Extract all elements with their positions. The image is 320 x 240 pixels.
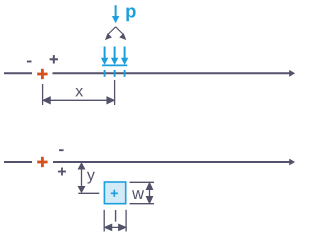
dimension l: right extension line xyxy=(125,210,127,232)
label w xyxy=(132,190,144,199)
dimension w: top reference line xyxy=(130,181,155,183)
wire: bottom beam axis main line with arrow xyxy=(53,161,290,163)
distributed load arrow 1 xyxy=(104,47,106,59)
dimension y: bottom reference tick xyxy=(78,192,99,194)
blue plus in square xyxy=(111,190,118,197)
dimension x: left extension line xyxy=(42,84,44,105)
label minus (bottom, above line) xyxy=(59,149,64,151)
element square xyxy=(104,182,125,204)
wire: top beam axis left dash xyxy=(4,72,32,74)
spread arrows under p xyxy=(106,27,125,39)
load tick 1 on beam xyxy=(104,70,106,77)
dimension x: arrow line xyxy=(43,97,114,103)
label y xyxy=(87,172,95,184)
label l xyxy=(115,210,116,222)
wire: bottom beam axis left dash xyxy=(4,161,32,163)
dimension l: left extension line xyxy=(103,210,105,232)
node origin top: orange plus xyxy=(37,69,47,79)
label minus (top, above-left) xyxy=(27,61,32,63)
dimension x: right extension line xyxy=(114,80,116,105)
load base bar xyxy=(102,64,127,66)
dimension l: double arrow xyxy=(105,225,126,231)
distributed load arrow 3 xyxy=(124,47,126,59)
label x xyxy=(75,88,83,96)
load p arrow xyxy=(115,5,117,16)
dimension w: bottom reference line xyxy=(130,203,155,205)
load tick 3 on beam xyxy=(124,70,126,77)
load tick 2 on beam xyxy=(114,70,116,77)
label plus (top, above-right) xyxy=(50,55,58,63)
wire: top beam axis main line with arrow xyxy=(53,72,291,74)
node origin bottom: orange plus xyxy=(37,157,47,167)
dimension w: double arrow xyxy=(147,183,153,203)
dimension y: double arrow xyxy=(79,163,85,192)
distributed load arrow 2 xyxy=(114,47,116,59)
label plus (bottom, below line) xyxy=(58,168,66,176)
label p xyxy=(126,7,135,21)
